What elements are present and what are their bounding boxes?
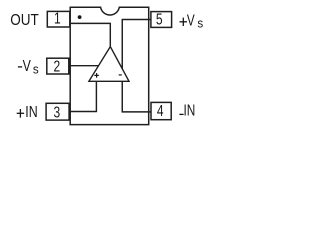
svg-text:s: s	[33, 62, 39, 77]
pin 1 indicator dot	[78, 15, 82, 19]
label +IN : plus	[17, 112, 24, 114]
op-amp U1 triangle	[89, 47, 129, 82]
pin box 4	[151, 102, 171, 119]
wire OUT horizontal from pin 1	[70, 22, 111, 24]
svg-text:4: 4	[157, 103, 164, 120]
svg-text:OUT: OUT	[10, 12, 39, 29]
pin box 1	[47, 11, 70, 27]
svg-text:V: V	[23, 58, 32, 75]
wire +Vs vertical to op-amp right side	[121, 19, 123, 69]
svg-text:V: V	[187, 13, 195, 30]
IC body outline with notch	[70, 7, 149, 124]
op-amp + input label	[94, 74, 99, 76]
wire +IN vertical to op-amp base	[95, 81, 97, 112]
wire +IN horizontal from pin 3	[70, 111, 97, 113]
pin box 2	[47, 58, 69, 74]
svg-text:5: 5	[156, 11, 163, 28]
svg-text:1: 1	[54, 11, 61, 28]
wire -Vs horizontal from pin 2 to op-amp left side	[70, 65, 99, 67]
label -Vs : minus	[18, 66, 22, 68]
op-amp - input label	[119, 74, 122, 76]
label -IN : minus	[179, 113, 183, 115]
pin box 5	[151, 12, 172, 28]
svg-text:2: 2	[53, 59, 60, 76]
svg-text:s: s	[197, 16, 203, 31]
pin box 3	[46, 103, 69, 120]
svg-text:3: 3	[53, 104, 60, 121]
svg-text:IN: IN	[184, 103, 196, 120]
label +Vs : plus	[180, 21, 188, 23]
wire +Vs horizontal from pin 5	[122, 19, 151, 21]
wire -IN horizontal from pin 4	[122, 111, 151, 113]
svg-text:IN: IN	[25, 104, 37, 121]
wire -IN vertical to op-amp base	[121, 81, 123, 112]
wire OUT vertical to op-amp apex	[109, 23, 111, 47]
